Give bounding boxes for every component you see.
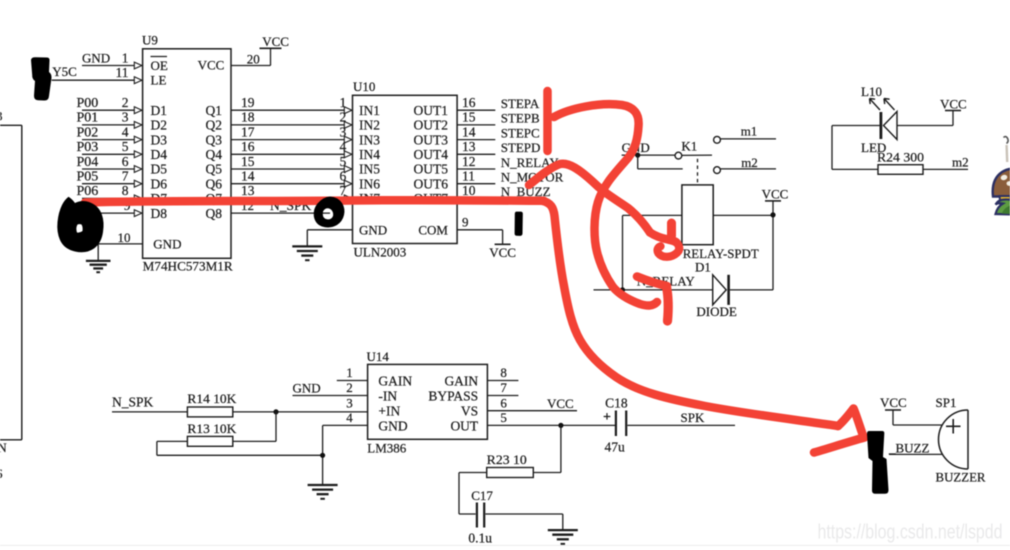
svg-text:C18: C18 — [605, 395, 628, 410]
svg-text:4: 4 — [122, 124, 129, 139]
svg-text:DIODE: DIODE — [696, 304, 736, 319]
svg-text:m1: m1 — [741, 124, 758, 139]
svg-text:P02: P02 — [77, 125, 99, 140]
svg-text:D1: D1 — [151, 103, 168, 118]
svg-text:12: 12 — [462, 154, 476, 169]
svg-text:M74HC573M1R: M74HC573M1R — [143, 259, 233, 274]
svg-text:1: 1 — [340, 95, 347, 110]
svg-text:Q2: Q2 — [206, 118, 223, 133]
svg-text:1: 1 — [346, 365, 353, 380]
svg-text:VCC: VCC — [880, 395, 907, 410]
svg-text:VCC: VCC — [489, 245, 516, 260]
svg-text:3: 3 — [122, 110, 129, 125]
svg-text:47u: 47u — [605, 440, 626, 455]
svg-text:6: 6 — [122, 154, 129, 169]
svg-text:IN2: IN2 — [359, 118, 380, 133]
svg-text:11: 11 — [462, 169, 475, 184]
svg-text:Q4: Q4 — [206, 147, 223, 162]
svg-text:2: 2 — [340, 110, 347, 125]
svg-text:5: 5 — [500, 410, 507, 425]
svg-text:10: 10 — [462, 183, 476, 198]
svg-text:L10: L10 — [861, 84, 882, 99]
svg-text:D2: D2 — [151, 118, 168, 133]
svg-text:9: 9 — [462, 215, 469, 230]
svg-text:3: 3 — [0, 109, 3, 124]
svg-text:Q3: Q3 — [206, 132, 223, 147]
svg-text:D5: D5 — [151, 162, 168, 177]
svg-text:VS: VS — [461, 404, 478, 419]
svg-text:6: 6 — [340, 169, 347, 184]
svg-text:1: 1 — [122, 50, 129, 65]
svg-text:BYPASS: BYPASS — [428, 388, 478, 403]
svg-text:P05: P05 — [77, 170, 99, 185]
svg-text:13: 13 — [241, 183, 255, 198]
svg-text:P03: P03 — [77, 140, 99, 155]
svg-text:U9: U9 — [142, 33, 158, 48]
svg-text:D3: D3 — [151, 132, 168, 147]
svg-text:K1: K1 — [681, 139, 697, 154]
svg-text:8: 8 — [500, 365, 507, 380]
svg-text:D4: D4 — [151, 147, 168, 162]
svg-text:14: 14 — [241, 169, 255, 184]
svg-text:Q6: Q6 — [206, 176, 223, 191]
svg-text:STEPB: STEPB — [501, 111, 540, 126]
svg-text:GND: GND — [359, 223, 387, 238]
svg-text:2: 2 — [122, 95, 129, 110]
svg-text:STEPA: STEPA — [501, 96, 540, 111]
svg-text:7: 7 — [500, 380, 507, 395]
svg-text:OUT2: OUT2 — [414, 118, 449, 133]
svg-text:IN4: IN4 — [359, 147, 380, 162]
svg-text:C17: C17 — [471, 488, 493, 503]
svg-text:VCC: VCC — [940, 97, 967, 112]
svg-text:OUT: OUT — [450, 418, 478, 433]
svg-text:Q5: Q5 — [206, 162, 223, 177]
svg-text:VCC: VCC — [198, 57, 225, 72]
svg-text:IN: IN — [0, 440, 7, 455]
svg-text:7: 7 — [122, 169, 129, 184]
svg-text:+IN: +IN — [378, 404, 400, 419]
svg-text:P00: P00 — [77, 96, 99, 111]
svg-text:+: + — [603, 410, 611, 425]
svg-text:Q1: Q1 — [206, 103, 223, 118]
svg-text:19: 19 — [241, 95, 255, 110]
svg-text:m2: m2 — [952, 155, 969, 170]
svg-text:VCC: VCC — [762, 187, 789, 202]
svg-text:7: 7 — [340, 183, 347, 198]
svg-text:OUT5: OUT5 — [414, 162, 449, 177]
svg-text:D6: D6 — [151, 176, 168, 191]
svg-text:OUT1: OUT1 — [414, 103, 449, 118]
svg-text:GND: GND — [378, 418, 407, 433]
svg-text:2: 2 — [346, 380, 353, 395]
svg-text:D8: D8 — [151, 206, 168, 221]
svg-text:3: 3 — [340, 124, 347, 139]
svg-text:15: 15 — [241, 154, 255, 169]
svg-text:STEPC: STEPC — [501, 125, 540, 140]
svg-text:N_SPK: N_SPK — [112, 395, 154, 410]
svg-text:5: 5 — [340, 154, 347, 169]
svg-text:Y5C: Y5C — [52, 64, 77, 79]
svg-text:SP1: SP1 — [936, 395, 957, 410]
svg-text:17: 17 — [241, 124, 255, 139]
svg-text:-IN: -IN — [378, 388, 397, 403]
svg-text:R13 10K: R13 10K — [187, 421, 237, 436]
svg-text:13: 13 — [462, 139, 476, 154]
svg-text:GAIN: GAIN — [444, 373, 478, 388]
svg-text:15: 15 — [462, 110, 476, 125]
svg-text:IN6: IN6 — [359, 176, 380, 191]
svg-text:STEPD: STEPD — [501, 140, 541, 155]
svg-text:OUT4: OUT4 — [414, 147, 449, 162]
svg-text:16: 16 — [241, 139, 255, 154]
svg-text:5: 5 — [122, 139, 129, 154]
svg-text:SPK: SPK — [681, 410, 705, 425]
svg-text:6: 6 — [500, 395, 507, 410]
svg-text:LM386: LM386 — [367, 441, 407, 456]
svg-text:U10: U10 — [353, 79, 375, 94]
svg-text:GND: GND — [293, 381, 321, 396]
svg-text:Q8: Q8 — [206, 206, 223, 221]
svg-text:20: 20 — [247, 52, 260, 67]
svg-text:OUT6: OUT6 — [414, 176, 449, 191]
svg-text:IN5: IN5 — [359, 162, 380, 177]
svg-text:3: 3 — [346, 395, 353, 410]
svg-text:14: 14 — [462, 124, 476, 139]
svg-text:COM: COM — [418, 223, 448, 238]
svg-text:P06: P06 — [77, 184, 99, 199]
svg-text:R23 10: R23 10 — [487, 452, 527, 467]
svg-text:GND: GND — [82, 50, 110, 65]
svg-text:11: 11 — [116, 65, 129, 80]
svg-text:ULN2003: ULN2003 — [354, 245, 407, 260]
svg-text:IN1: IN1 — [359, 103, 380, 118]
svg-text:D1: D1 — [695, 259, 711, 274]
svg-text:GND: GND — [153, 237, 181, 252]
svg-text:VCC: VCC — [547, 396, 574, 411]
svg-text:R24 300: R24 300 — [877, 150, 924, 165]
svg-text:U14: U14 — [367, 349, 390, 364]
svg-text:_BUZZ: _BUZZ — [888, 441, 930, 456]
svg-text:OE: OE — [151, 58, 168, 73]
svg-text:BUZZER: BUZZER — [936, 470, 986, 485]
svg-text:OUT3: OUT3 — [414, 132, 449, 147]
svg-text:VCC: VCC — [262, 34, 289, 49]
svg-text:R14 10K: R14 10K — [187, 391, 237, 406]
svg-text:P04: P04 — [77, 155, 99, 170]
svg-text:m2: m2 — [741, 155, 758, 170]
svg-text:16: 16 — [462, 95, 476, 110]
svg-text:4: 4 — [340, 139, 347, 154]
svg-text:LE: LE — [151, 73, 167, 88]
svg-text:10: 10 — [118, 230, 131, 245]
svg-text:8: 8 — [122, 183, 129, 198]
svg-text:GAIN: GAIN — [378, 373, 412, 388]
svg-text:18: 18 — [241, 110, 255, 125]
svg-text:IN3: IN3 — [359, 132, 380, 147]
svg-text:https://blog.csdn.net/lspdd: https://blog.csdn.net/lspdd — [818, 520, 1003, 543]
svg-text:P01: P01 — [77, 111, 99, 126]
svg-text:0.1u: 0.1u — [468, 531, 492, 546]
